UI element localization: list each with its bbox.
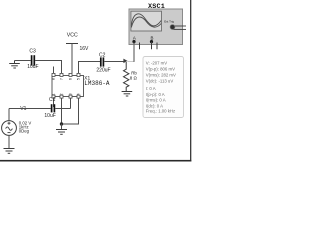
sheet border right (190, 0, 191, 162)
pin B- (156, 43, 158, 50)
ext trig pin lines (173, 26, 187, 29)
label Rb (131, 70, 137, 75)
svg-text:Rb: Rb (131, 70, 137, 75)
wire: C3 right plate to IC pin 7 (35, 61, 61, 74)
svg-text:V(p-p): 806 mV: V(p-p): 806 mV (146, 67, 175, 72)
svg-text:C2: C2 (99, 53, 106, 59)
svg-text:10uF: 10uF (27, 64, 38, 70)
scope trace A (131, 14, 161, 26)
stub: pin 1 unconnected (53, 98, 55, 107)
value LM386-A (84, 80, 110, 87)
probe text V (146, 60, 176, 113)
terminal B+ bullet (150, 40, 153, 43)
label C3 (29, 48, 36, 54)
value 0.02 V (19, 120, 32, 125)
label B (151, 35, 154, 40)
ext trig terminal (170, 25, 175, 30)
label V1 (20, 106, 26, 112)
capacitor C2 (101, 57, 104, 66)
svg-text:XSC1: XSC1 (148, 3, 165, 11)
wire: pin 2 down to ground junction (61, 98, 63, 124)
svg-text:Freq.: 1.00 kHz: Freq.: 1.00 kHz (146, 109, 175, 114)
svg-text:A: A (133, 35, 136, 40)
svg-text:5: 5 (77, 78, 81, 80)
svg-text:I(p-p): 0 A: I(p-p): 0 A (146, 92, 165, 97)
pin number 2 (60, 93, 64, 95)
value 0Deg (19, 129, 30, 134)
wire: C2 to output node (104, 61, 124, 63)
svg-text:8 Ω: 8 Ω (130, 76, 138, 81)
svg-text:I: 0 A: I: 0 A (146, 86, 156, 91)
svg-text:220uF: 220uF (96, 68, 110, 74)
ground (V1) (4, 149, 15, 154)
label Ext Trig (164, 19, 174, 23)
stub: pin 8 unconnected (53, 67, 55, 74)
oscilloscope XSC1 (129, 9, 183, 45)
wire: junction to ground (61, 124, 63, 130)
pin A+ (133, 42, 135, 45)
wire: pin 5 output riser (79, 62, 101, 74)
pin B+ (151, 42, 153, 50)
label C1 (49, 97, 56, 103)
AC source V1 (2, 121, 17, 136)
pin pad 2 (bottom col2) (60, 95, 63, 98)
label A (133, 35, 136, 40)
ground (C3 bypass) (9, 61, 20, 69)
wire: faint segment under probe to scope drop (127, 61, 134, 63)
svg-text:4: 4 (77, 93, 81, 95)
pin number 6 (69, 78, 73, 80)
ground (IC) (56, 130, 67, 135)
label C2 (99, 53, 106, 59)
svg-text:V(rms): 282 mV: V(rms): 282 mV (146, 73, 176, 78)
pin number 8 (52, 78, 56, 80)
resistor Rb (124, 62, 129, 92)
wire: pin 3 lead down (70, 98, 72, 108)
value 10uF (C1) (44, 113, 55, 119)
svg-text:C3: C3 (29, 48, 36, 54)
value 1kHz (19, 124, 29, 129)
wire: scope channel A drop (133, 45, 135, 62)
svg-text:3: 3 (69, 93, 73, 95)
svg-text:1: 1 (52, 93, 56, 95)
label XSC1 (148, 3, 165, 11)
pin pad 8 (top col1) (52, 73, 55, 76)
measurement probe arrow (123, 59, 127, 64)
svg-text:LM386-A: LM386-A (84, 80, 110, 87)
value 220uF (96, 68, 110, 74)
pin pad 4 (bottom col4) (77, 95, 80, 98)
pin number 7 (60, 78, 64, 80)
svg-text:VCC: VCC (67, 32, 78, 38)
capacitor C3 (32, 55, 35, 65)
value 8 Ohm (130, 76, 138, 81)
svg-text:V(dc): -113 uV: V(dc): -113 uV (146, 79, 174, 84)
svg-text:Ext Trig: Ext Trig (164, 19, 174, 23)
svg-text:I(rms): 0 A: I(rms): 0 A (146, 98, 166, 103)
scope trace B (131, 17, 161, 27)
wire: pin 4 down and left to junction (62, 98, 79, 124)
pin pad 7 (top col2) (60, 73, 63, 76)
wire: ground to C3 left plate (15, 60, 31, 62)
svg-text:2: 2 (60, 93, 64, 95)
svg-text:0Deg: 0Deg (19, 129, 30, 134)
svg-text:C1: C1 (49, 97, 56, 103)
pin number 5 (77, 78, 81, 80)
pin pad 1 (bottom col1) (52, 95, 55, 98)
probe readout box (143, 57, 184, 118)
pin pad 3 (bottom col3) (69, 95, 72, 98)
svg-text:10uF: 10uF (44, 113, 55, 119)
capacitor C1 (52, 104, 55, 112)
pin pad 5 (top col4) (77, 73, 80, 76)
label X1 (84, 75, 90, 81)
svg-text:6: 6 (69, 78, 73, 80)
svg-text:V: -207 mV: V: -207 mV (146, 60, 167, 65)
value 10uF (C3) (27, 64, 38, 70)
op-amp IC X1 LM386 body (52, 76, 84, 97)
pin number 1 (52, 93, 56, 95)
pin A- (139, 43, 141, 50)
sheet border bottom (0, 160, 191, 162)
junction dot (60, 122, 63, 125)
terminal A+ bullet (132, 40, 135, 43)
scope screen (131, 11, 162, 31)
wire: V1 bottom to ground (8, 135, 10, 148)
wire: V1 top to input wire (8, 109, 10, 121)
pin pad 6 (top col3) (69, 73, 72, 76)
svg-text:16V: 16V (80, 46, 90, 52)
ground (Rb) (122, 92, 133, 97)
pin number 3 (69, 93, 73, 95)
pin number 4 (77, 93, 81, 95)
svg-text:7: 7 (60, 78, 64, 80)
wire: VCC to IC pin 6 (71, 44, 73, 74)
svg-text:8: 8 (52, 78, 56, 80)
value 16V (80, 46, 90, 52)
label VCC (67, 32, 78, 38)
wire: V1 to C1 left plate (9, 108, 51, 110)
power VCC symbol (66, 43, 78, 45)
svg-text:B: B (151, 35, 154, 40)
wire: C1 right plate to pin 3 (55, 108, 70, 110)
